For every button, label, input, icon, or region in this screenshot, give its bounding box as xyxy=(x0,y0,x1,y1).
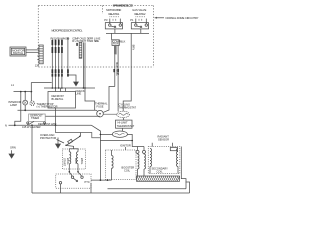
lamp branch wire xyxy=(15,92,21,126)
start relay dashed box xyxy=(56,174,91,188)
svg-text:LAMP: LAMP xyxy=(10,103,17,107)
svg-text:MAIN WINDING BLOCK: MAIN WINDING BLOCK xyxy=(113,3,134,7)
svg-text:GAS VALVE: GAS VALVE xyxy=(132,8,146,12)
main winding strip xyxy=(114,46,117,55)
rail B right end xyxy=(186,182,190,193)
wires B xyxy=(83,42,85,88)
start winding coil xyxy=(69,152,71,172)
wire from fuse join xyxy=(103,87,114,113)
svg-text:SENSOR: SENSOR xyxy=(158,138,169,142)
overload protector component xyxy=(65,133,80,147)
svg-text:TIMR: TIMR xyxy=(87,39,94,43)
igniter feed line xyxy=(100,140,132,142)
svg-text:P1: P1 xyxy=(130,18,134,22)
svg-text:THERMOSTAT: THERMOSTAT xyxy=(119,105,137,109)
relay RL1 xyxy=(104,17,122,29)
hi-limit right lead xyxy=(127,134,144,150)
monitor switch box xyxy=(10,47,26,56)
comp-run box xyxy=(112,40,119,46)
svg-text:THERMOSTAT: THERMOSTAT xyxy=(117,124,135,128)
secondary left coil xyxy=(150,149,152,174)
svg-text:RUN: RUN xyxy=(74,158,78,164)
wire to cycling thermostat xyxy=(117,90,119,112)
motor winding dashed box xyxy=(63,149,86,169)
overload pointer xyxy=(57,140,65,144)
start relay contacts xyxy=(59,172,90,188)
relay RL2 xyxy=(130,17,148,29)
svg-text:RELAY RL2: RELAY RL2 xyxy=(135,12,147,16)
svg-text:NORMAL DOME CIRCUITRY: NORMAL DOME CIRCUITRY xyxy=(166,16,199,20)
wire bus to comp-run box xyxy=(110,33,112,39)
svg-text:PROTECTOR: PROTECTOR xyxy=(40,136,56,140)
cable monitor to connector xyxy=(26,49,39,51)
start relay feed to rail xyxy=(90,183,92,193)
svg-text:WDG: WDG xyxy=(80,158,84,164)
thermal fuse xyxy=(97,110,104,117)
svg-text:RUN: RUN xyxy=(113,42,119,46)
svg-text:SENS: SENS xyxy=(94,39,99,43)
L1 line segment A xyxy=(14,91,31,93)
svg-text:TIMER: TIMER xyxy=(31,116,39,120)
ground arrow 2 xyxy=(56,138,61,149)
hi-limit stub xyxy=(122,128,124,131)
svg-text:WDG: WDG xyxy=(66,158,70,164)
compressor branch line xyxy=(56,125,101,138)
svg-text:BLK: BLK xyxy=(120,40,125,44)
wire defrost box to N xyxy=(55,108,57,125)
switch blade xyxy=(28,121,34,124)
connector bar xyxy=(37,45,43,64)
svg-text:BI-METAL: BI-METAL xyxy=(52,97,64,101)
svg-text:BRN: BRN xyxy=(131,45,135,51)
left rail xyxy=(31,125,33,193)
wire label row B xyxy=(72,36,100,43)
L1 riser xyxy=(30,83,32,92)
heater element hatch bar xyxy=(137,176,180,181)
svg-text:COIL: COIL xyxy=(124,168,131,172)
L1 line segment B xyxy=(31,82,51,84)
thermistor line xyxy=(18,109,97,111)
bottom rail A xyxy=(108,188,187,190)
sensor right wire xyxy=(181,147,186,189)
svg-text:P3: P3 xyxy=(104,18,108,22)
cycling to hi-limit stub xyxy=(123,118,125,121)
radiant sensor stubs xyxy=(152,143,172,147)
defrost bimetal box xyxy=(48,88,76,108)
wire pair down from comp-run xyxy=(114,54,116,86)
svg-text:MOTOR WIND: MOTOR WIND xyxy=(106,8,121,12)
svg-text:120: 120 xyxy=(35,64,40,68)
svg-text:MICROPROCESSOR CONTROL: MICROPROCESSOR CONTROL xyxy=(52,28,84,32)
connector blobs row 3 xyxy=(52,69,63,76)
wire bundle A xyxy=(52,40,63,89)
connector blobs row 1 xyxy=(52,40,63,45)
hi-limit thermostat label box xyxy=(116,120,133,128)
connector blobs row 2 xyxy=(52,47,63,53)
cycling thermostat xyxy=(117,111,130,117)
booster dashed box xyxy=(105,150,136,180)
wire 5 + ground arrow xyxy=(68,40,76,80)
hi-limit thermostat xyxy=(112,131,127,137)
svg-text:PTC: PTC xyxy=(85,180,90,184)
igniter coil 2 xyxy=(143,150,146,176)
wire fuse to cycling thermostat xyxy=(103,113,116,115)
bottom rail B xyxy=(32,192,190,194)
run winding coil xyxy=(77,152,79,172)
defrost timer box xyxy=(27,114,46,126)
junction dots on L1 xyxy=(24,87,85,92)
svg-text:N: N xyxy=(5,123,7,127)
booster primary coil xyxy=(112,150,114,180)
svg-text:FUSE: FUSE xyxy=(97,104,104,108)
svg-text:RUN: RUN xyxy=(72,39,79,43)
L1 line segment C xyxy=(44,87,95,89)
thermistor dashed circle xyxy=(30,92,32,101)
feeder to igniter xyxy=(92,125,101,180)
normal dome circuitry label + arrow xyxy=(155,17,165,19)
svg-text:RELAY RL1: RELAY RL1 xyxy=(109,12,121,16)
relay output bus xyxy=(106,32,149,34)
wire relay RL2 to cycling thermostat xyxy=(123,33,131,111)
svg-text:GRN: GRN xyxy=(10,145,16,149)
igniter coil 1 xyxy=(136,150,139,176)
N line xyxy=(9,124,92,126)
radiant sensor dashed box xyxy=(148,147,180,174)
svg-text:LINE: LINE xyxy=(76,92,82,96)
control enclosure dashed box xyxy=(38,6,153,68)
secondary right coil xyxy=(170,148,178,174)
wire from defrost box right xyxy=(85,88,95,110)
timer to fuse wire xyxy=(45,115,99,118)
lamp wire xyxy=(24,92,26,101)
winding feed bracket xyxy=(67,146,79,152)
ignitor feed stub xyxy=(125,147,127,150)
booster bottom wire xyxy=(91,179,112,181)
hi-limit left lead xyxy=(100,133,112,135)
svg-text:START: START xyxy=(62,158,66,167)
svg-text:SWITCH: SWITCH xyxy=(13,51,23,55)
interior lamp xyxy=(23,100,28,105)
junction dots under motor box xyxy=(69,171,71,173)
svg-text:COIL: COIL xyxy=(157,169,164,173)
connector bar B xyxy=(76,42,81,58)
